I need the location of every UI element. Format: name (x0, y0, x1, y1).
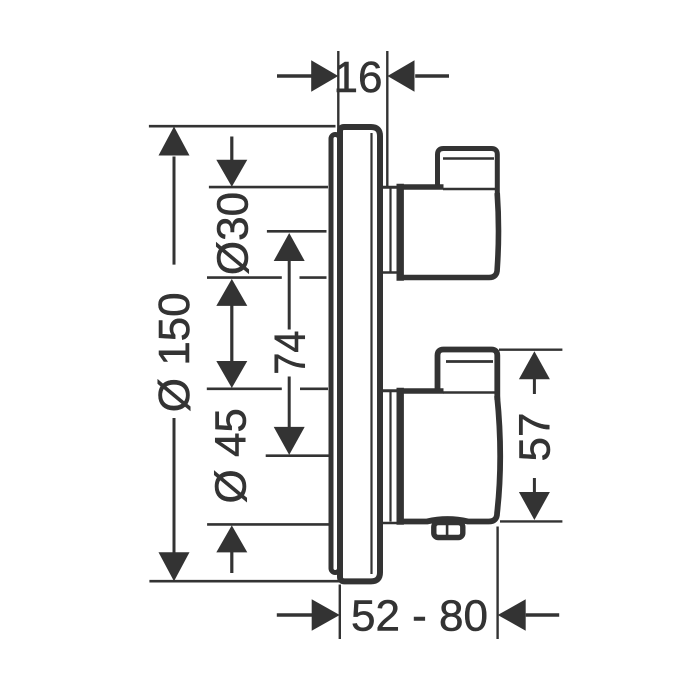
svg-text:74: 74 (266, 331, 315, 375)
svg-text:Ø30: Ø30 (209, 192, 258, 275)
svg-text:16: 16 (334, 53, 383, 102)
svg-text:57: 57 (511, 413, 560, 462)
svg-text:Ø 150: Ø 150 (150, 292, 199, 412)
svg-text:Ø 45: Ø 45 (207, 408, 256, 503)
svg-text:52 - 80: 52 - 80 (351, 592, 488, 641)
